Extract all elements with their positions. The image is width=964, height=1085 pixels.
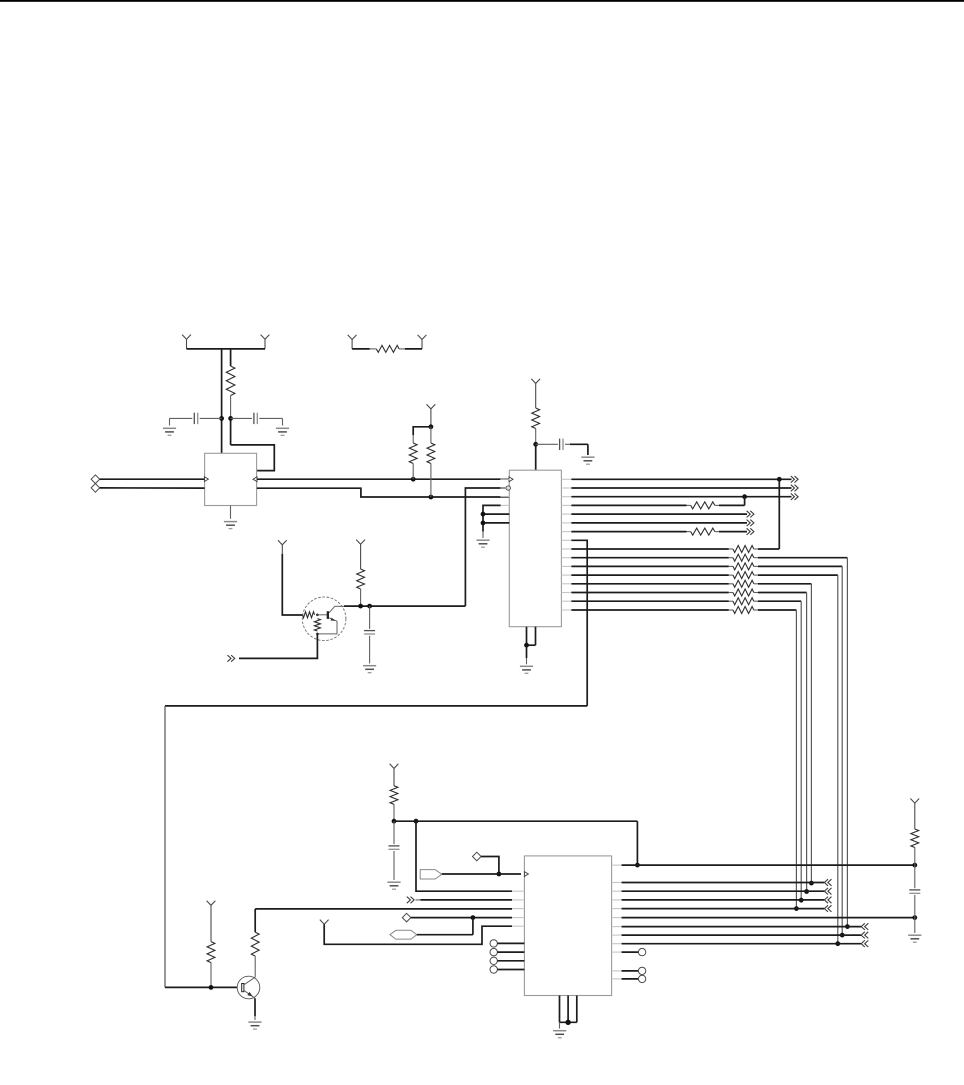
- wire VCC4 to N1: [535, 444, 537, 470]
- junction node F2: [414, 819, 419, 824]
- Q2 collector lead: [244, 977, 255, 985]
- N2 right NC pin 3: [622, 975, 646, 982]
- power arrow VCC8: [320, 920, 329, 925]
- IC U1 body: [205, 453, 257, 505]
- junction node G1: [497, 872, 502, 877]
- resistor R1: [226, 349, 235, 419]
- junction node B3: [429, 424, 434, 429]
- resistor R10: [390, 786, 398, 821]
- resistor R20 row k14 and drop wire: [571, 598, 803, 903]
- wire k3 up to k2: [744, 497, 746, 506]
- Q1 base bar: [327, 611, 329, 619]
- junction node E2: [742, 494, 747, 499]
- N1 left pin arrow: [509, 477, 513, 482]
- resistor R3: [427, 427, 435, 497]
- ground GND8: [248, 1022, 261, 1029]
- ground GND5: [476, 540, 489, 547]
- power arrow VCC12: [418, 335, 427, 349]
- power arrow VCC4: [531, 379, 540, 408]
- wire P4 to node: [481, 857, 499, 875]
- power arrow VCC7: [390, 764, 399, 786]
- capacitor C3: [536, 439, 588, 450]
- wire Q1 collector to N1: [344, 488, 506, 606]
- resistor R9: [207, 942, 215, 988]
- resistor R16 row k10 and drop wire: [571, 563, 844, 938]
- N1 left pin stubs: [500, 479, 509, 496]
- junction node B2: [429, 495, 434, 500]
- power arrow VCC6: [356, 540, 365, 569]
- wire F2 to N2 row: [416, 821, 512, 891]
- wire U1 to N1 (row479): [257, 478, 510, 480]
- wire row r2 with end chevrons: [622, 879, 832, 886]
- Q1 emitter node: [316, 633, 319, 636]
- junction node E0: [777, 477, 782, 482]
- wire row r6 long: [622, 917, 915, 919]
- Q1 shunt resistor: [314, 619, 320, 631]
- wire P2 to U1: [100, 487, 205, 489]
- wire C2 to ground: [282, 418, 284, 425]
- resistor R18 row k12 and drop wire: [571, 580, 813, 885]
- Q1 collector: [329, 606, 344, 613]
- power arrow VCC3: [427, 404, 436, 427]
- resistor R19 row k13 and drop wire: [571, 589, 809, 894]
- junction node J6: [912, 915, 917, 920]
- wire R1 to bend: [230, 418, 232, 445]
- page top border rule: [0, 0, 964, 2]
- wire row k5: [571, 522, 747, 524]
- junction node J0: [912, 863, 917, 868]
- N2 left NC pin 2: [490, 948, 524, 955]
- net tag T1: [420, 870, 442, 879]
- wire net k7 long route: [165, 540, 587, 987]
- wire row r3 with end chevrons: [622, 888, 832, 895]
- port diamond P1: [91, 475, 100, 484]
- port diamond P4: [473, 852, 482, 861]
- U1 right pin arrow: [253, 477, 257, 482]
- resistor R17 row k11 and drop wire: [571, 572, 840, 947]
- hexagon tag T2: [390, 930, 417, 939]
- junction node C1: [533, 442, 538, 447]
- N2 right NC pin 2: [622, 967, 646, 974]
- N1 right pin stubs: [561, 479, 575, 610]
- capacitor C6: [909, 865, 920, 918]
- wire Q2 emitter: [254, 998, 256, 1020]
- Q2 base bar: [242, 984, 244, 992]
- junction node B1: [411, 477, 416, 482]
- wire C3 to ground: [570, 444, 588, 455]
- junction node D1: [358, 604, 363, 609]
- N2 left pin stubs: [512, 891, 525, 969]
- chevrons out k5: [747, 520, 754, 527]
- wire C1 to ground: [169, 418, 171, 425]
- power arrow VCC5: [278, 540, 287, 554]
- wire P1 to U1: [100, 478, 205, 480]
- resistor R7: [357, 569, 365, 606]
- ground GND1: [163, 428, 176, 435]
- power arrow VCC11: [348, 335, 357, 349]
- wire Q2 collector net: [255, 908, 512, 910]
- ground GND9: [387, 882, 400, 889]
- IC N2 body: [524, 856, 611, 996]
- wire row k2: [571, 496, 791, 498]
- Q1 base node: [316, 614, 319, 617]
- wire P5 to N2: [416, 899, 513, 901]
- wire T1 to N2: [442, 873, 521, 875]
- port chevrons P5: [407, 897, 414, 904]
- wire row r5 with end chevrons: [622, 905, 832, 912]
- N1 bottom pins to ground: [524, 627, 535, 665]
- U1 bottom pin lead: [230, 506, 232, 519]
- N2 right pin stubs: [612, 865, 626, 979]
- resistor R21 row k15 and drop wire: [571, 607, 798, 911]
- transistor Q1 envelope: [302, 597, 346, 641]
- capacitor C5: [389, 821, 400, 880]
- wire bend to U1 right pin: [231, 445, 275, 471]
- capacitor C4: [364, 606, 375, 663]
- wire row y935 with end chevrons: [622, 932, 869, 939]
- wire to U1 pin VCC: [221, 349, 223, 453]
- junction node G2: [471, 915, 476, 920]
- resistor R11: [911, 829, 919, 865]
- ground GND2: [276, 428, 289, 435]
- resistor R14 row k8 and riser: [571, 479, 779, 552]
- wire rail lead: [482, 532, 484, 539]
- N2 left NC pin 3: [490, 957, 524, 964]
- port diamond P2: [91, 484, 100, 493]
- junction node F3: [635, 863, 640, 868]
- IC N1 body: [509, 470, 561, 627]
- wire to GND10: [559, 1022, 561, 1028]
- ground GND11: [908, 935, 921, 942]
- resistor R13 row k6: [571, 528, 747, 535]
- power arrow VCC1: [182, 335, 191, 349]
- resistor R4: [532, 408, 540, 444]
- wire row r4 with end chevrons: [622, 897, 832, 904]
- junction node A2: [228, 416, 233, 421]
- wire row k4: [571, 513, 747, 515]
- chevrons out k4: [747, 511, 754, 518]
- N1 left pin circle: [506, 486, 510, 490]
- ground GND4: [581, 457, 594, 464]
- ground GND3: [224, 522, 237, 529]
- transistor Q2 envelope: [237, 976, 260, 999]
- junction node F1: [392, 819, 397, 824]
- junction node D2: [367, 604, 372, 609]
- wire J6 to ground: [914, 918, 916, 933]
- chevrons out k6: [747, 528, 754, 535]
- wire T2 to G2: [417, 918, 473, 935]
- chevrons out k1: [791, 485, 798, 492]
- wire row 821: [394, 820, 637, 822]
- resistor R12 row k3: [571, 502, 744, 509]
- wire VCC5 to Q1 base: [282, 554, 302, 615]
- wire Q1 emitter out: [239, 634, 317, 659]
- resistor R5 between arrows: [352, 345, 422, 352]
- wire 821 drop to row865: [636, 821, 638, 865]
- port chevrons P3: [227, 655, 234, 662]
- junction node C2: [481, 512, 486, 517]
- chevrons out k2: [791, 493, 798, 500]
- ground GND7: [363, 666, 376, 673]
- wire P6 to N2: [411, 917, 512, 919]
- N2 right NC pin 1: [622, 948, 646, 955]
- ground GND6: [520, 666, 533, 673]
- power arrow VCC10: [910, 799, 919, 830]
- power arrow VCC2: [261, 335, 270, 349]
- resistor R2: [409, 435, 417, 479]
- wire row r0: [622, 864, 915, 866]
- wire row k1: [571, 487, 791, 489]
- ground GND10: [553, 1031, 566, 1038]
- port diamond P6: [402, 913, 411, 922]
- junction node A1: [219, 416, 224, 421]
- N2 left NC pin 1: [490, 940, 524, 947]
- wire U1 to N1 stepped (row488): [257, 488, 510, 497]
- chevrons out k0: [791, 476, 798, 483]
- wire N1 gnd rail: [483, 505, 509, 531]
- wire VCC top rail: [187, 348, 266, 350]
- U1 left pin arrow: [204, 477, 208, 482]
- wire row k0: [571, 478, 791, 480]
- N2 left NC pin 4: [490, 966, 524, 973]
- Q1 base lead: [317, 614, 327, 616]
- Q1 base resistor: [303, 612, 315, 618]
- wire VCC3 branch: [413, 427, 431, 436]
- capacitor C1: [170, 413, 222, 424]
- capacitor C2: [231, 413, 283, 424]
- Q1 emitter: [317, 618, 337, 634]
- resistor R8 collector: [251, 909, 259, 977]
- wire VCC8 to N2: [324, 924, 512, 944]
- power arrow VCC9: [207, 901, 216, 942]
- N2 left pin arrow: [524, 872, 528, 877]
- wire row y943 with end chevrons: [622, 940, 869, 947]
- N2 bottom pins: [560, 996, 577, 1026]
- junction node C3b: [481, 521, 486, 526]
- junction node H1: [209, 985, 214, 990]
- Q2 emitter lead: [244, 990, 255, 998]
- wire row y926 with end chevrons: [622, 923, 869, 930]
- resistor R15 row k9 and drop wire: [571, 554, 849, 929]
